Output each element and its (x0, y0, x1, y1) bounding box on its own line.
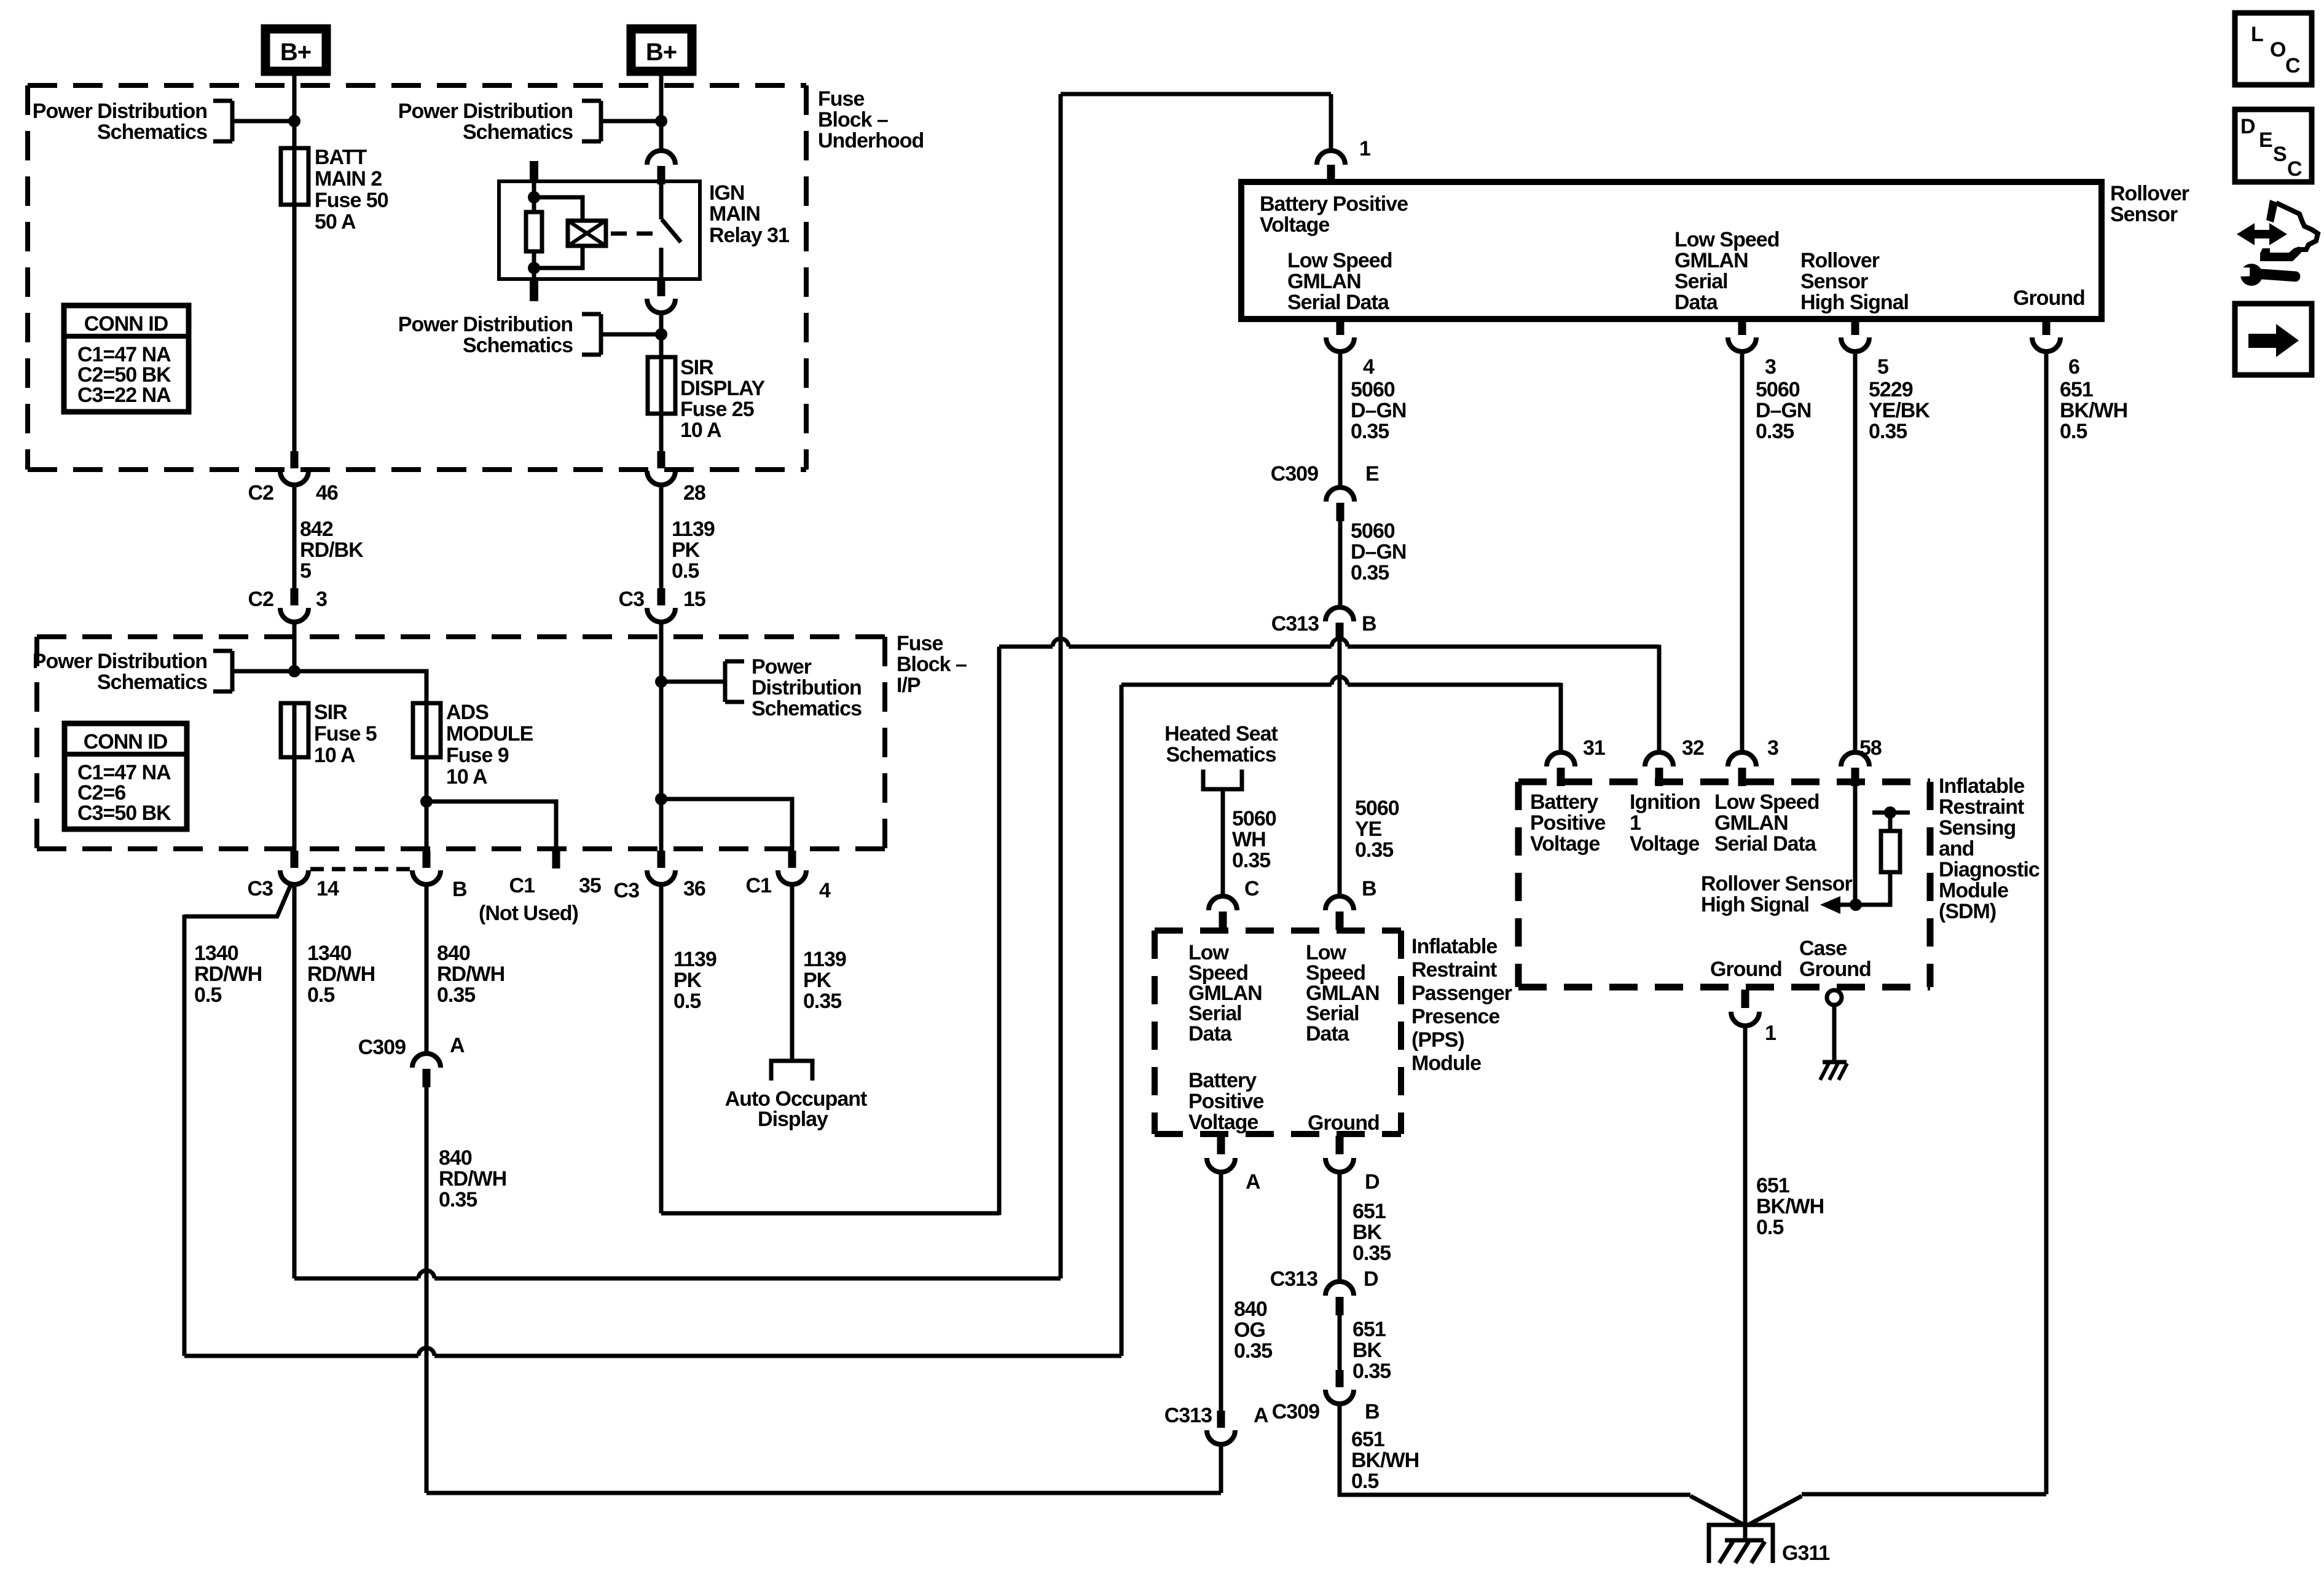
wire ign drop to pin 32 (1657, 645, 1662, 752)
wire batt feed bottom (184, 1354, 1121, 1358)
connector SDM pin 32 (1645, 752, 1673, 766)
inner dashed connector line (310, 867, 410, 872)
svg-text:0.5: 0.5 (1756, 1216, 1783, 1239)
svg-text:Sensing: Sensing (1939, 816, 2016, 840)
svg-text:Voltage: Voltage (1260, 213, 1329, 237)
wire ADS branch (294, 671, 426, 703)
icon arrow box (2235, 304, 2312, 375)
relay IGN MAIN Relay 31 box (499, 181, 700, 279)
svg-text:YE: YE (1355, 817, 1382, 841)
wire 5060 DGN mid (1338, 521, 1343, 607)
svg-text:C309: C309 (1272, 1400, 1319, 1423)
fuse block IP dashed box (37, 634, 885, 639)
power symbol B+ (battery feed, left) (265, 29, 326, 71)
wire pin1 drop (1329, 94, 1333, 150)
wire B+1 to junction (292, 71, 297, 148)
connector C3 pin 14 (291, 851, 299, 868)
svg-text:(SDM): (SDM) (1939, 900, 1996, 923)
connector pin 28 (658, 451, 665, 468)
svg-text:10 A: 10 A (680, 419, 721, 442)
svg-text:GMLAN: GMLAN (1674, 249, 1748, 272)
svg-text:10 A: 10 A (446, 765, 487, 789)
hop y1052 over x1726 (1053, 644, 1069, 650)
wire batt feed horizontal (1121, 683, 1561, 687)
off-page ref Power Distribution Schematics (IP left) (213, 649, 232, 653)
svg-text:35: 35 (579, 874, 601, 897)
node junction SIR fuse feed (288, 665, 300, 677)
svg-text:Schematics: Schematics (463, 334, 573, 357)
wire fuse to C2-46 (292, 148, 297, 451)
relay coil pin stub top (530, 161, 538, 181)
svg-text:Restraint: Restraint (1939, 795, 2024, 819)
svg-text:ADS: ADS (446, 701, 489, 724)
node junction right B+ (655, 115, 667, 127)
svg-text:BK/WH: BK/WH (1756, 1195, 1824, 1218)
resistor SDM internal bottom elbow (1856, 872, 1890, 905)
svg-text:0.35: 0.35 (1352, 1360, 1391, 1383)
svg-text:10 A: 10 A (314, 744, 355, 767)
svg-text:15: 15 (683, 588, 705, 611)
wire 1340 split diagonal (184, 885, 291, 916)
svg-text:Heated Seat: Heated Seat (1164, 722, 1278, 746)
relay switch fixed contact (659, 181, 664, 219)
svg-text:5229: 5229 (1869, 378, 1913, 401)
svg-text:5060: 5060 (1355, 797, 1399, 820)
connector SDM pin 1 ground (1741, 990, 1749, 1008)
svg-text:58: 58 (1859, 736, 1882, 760)
off-page ref Power Distribution Schematics (IP right) (661, 680, 725, 684)
svg-text:C3: C3 (248, 877, 273, 900)
wire 842 RD/BK (292, 486, 297, 588)
wire 840 bottom horizontal (426, 1491, 1221, 1495)
connector C309 pin E (1326, 487, 1354, 502)
resistor SDM internal (1881, 831, 1900, 872)
svg-text:C1: C1 (509, 874, 535, 897)
svg-text:C2: C2 (248, 588, 274, 611)
svg-text:Passenger: Passenger (1411, 982, 1512, 1005)
svg-text:0.35: 0.35 (439, 1188, 477, 1211)
connector rollover pin 6 (2043, 319, 2051, 335)
svg-text:31: 31 (1583, 736, 1605, 760)
svg-text:Schematics: Schematics (463, 120, 573, 144)
svg-text:Rollover: Rollover (1800, 249, 1880, 272)
wire rollover pin1 top horizontal (1061, 92, 1331, 96)
relay coil element box with X (568, 221, 606, 246)
wire 840 OG (1219, 1174, 1223, 1411)
svg-text:Presence: Presence (1411, 1005, 1499, 1028)
svg-text:Positive: Positive (1530, 811, 1605, 835)
wire right gnd elbow (1802, 1492, 2046, 1497)
hop y1052 over x2180 (1332, 644, 1348, 650)
connector C3 pin 15 (658, 588, 665, 605)
wire ign feed elbow (1139 PK) (661, 1211, 999, 1216)
wire SIR fuse to C3-14 (292, 703, 297, 851)
svg-text:3: 3 (316, 588, 327, 611)
svg-text:High Signal: High Signal (1701, 893, 1809, 916)
wire B+2 down to relay (659, 71, 664, 150)
svg-text:0.5: 0.5 (194, 983, 221, 1007)
svg-text:PK: PK (803, 969, 832, 992)
svg-text:32: 32 (1682, 736, 1704, 760)
svg-text:Voltage: Voltage (1188, 1111, 1258, 1134)
svg-text:36: 36 (683, 877, 705, 900)
wire C1-4 to display (790, 886, 795, 1061)
svg-text:0.35: 0.35 (1234, 1339, 1272, 1363)
off-page ref Auto Occupant Display (771, 1061, 812, 1081)
svg-text:Positive: Positive (1188, 1090, 1263, 1113)
svg-text:840: 840 (437, 942, 470, 965)
svg-text:D: D (1364, 1267, 1378, 1291)
svg-text:0.35: 0.35 (1232, 849, 1270, 872)
wire batt drop to pin 31 (1559, 683, 1563, 752)
relay switch lower contact (659, 248, 664, 279)
svg-text:S: S (2273, 143, 2287, 166)
icon vehicle outline (2266, 200, 2278, 222)
svg-text:Schematics: Schematics (1166, 743, 1276, 766)
icon vehicle double arrow (2237, 223, 2287, 245)
svg-text:0.35: 0.35 (1869, 420, 1907, 443)
svg-text:Underhood: Underhood (818, 129, 924, 152)
relay coil to switch dashed link (611, 232, 655, 236)
svg-text:OG: OG (1234, 1318, 1265, 1342)
svg-text:B: B (452, 878, 467, 901)
node junction left B+ (288, 115, 300, 127)
wire relay to junction (659, 313, 664, 357)
stub C1-35 not used (552, 851, 560, 868)
svg-text:Module: Module (1411, 1052, 1481, 1075)
off-page ref Power Distribution Schematics (top left) (213, 99, 232, 103)
svg-text:0.35: 0.35 (803, 990, 841, 1013)
svg-text:Serial: Serial (1674, 270, 1728, 293)
svg-text:651: 651 (1352, 1200, 1386, 1223)
svg-text:RD/WH: RD/WH (439, 1167, 506, 1191)
svg-text:3: 3 (1767, 736, 1778, 760)
svg-text:G311: G311 (1782, 1542, 1829, 1565)
svg-text:Data: Data (1306, 1022, 1350, 1045)
svg-text:B: B (1365, 1400, 1380, 1423)
svg-text:1139: 1139 (672, 518, 715, 541)
svg-text:PK: PK (672, 538, 701, 562)
node junction rollover high signal (1850, 899, 1862, 911)
relay coil pin stub bottom (530, 279, 538, 301)
connector B pin (423, 851, 431, 868)
svg-text:Power Distribution: Power Distribution (33, 100, 207, 123)
svg-text:L: L (2251, 23, 2263, 46)
wire 840 RD/WH upper (425, 886, 429, 1053)
svg-text:GMLAN: GMLAN (1287, 270, 1361, 293)
svg-text:50 A: 50 A (315, 210, 356, 234)
wire ADS fuse down (425, 703, 429, 851)
svg-text:Restraint: Restraint (1411, 958, 1497, 982)
ground G311 symbol (1709, 1525, 1773, 1563)
svg-text:Inflatable: Inflatable (1939, 774, 2024, 798)
connector rollover pin 5 (1851, 319, 1859, 335)
svg-text:Ground: Ground (1308, 1111, 1380, 1135)
svg-text:1340: 1340 (194, 942, 238, 965)
connector PPS pin B (1325, 896, 1354, 910)
wire 1139 PK lower (659, 886, 664, 1213)
svg-text:Schematics: Schematics (97, 671, 207, 694)
connector C1 pin 4 (788, 851, 796, 868)
PPS module dashed box (1155, 927, 1401, 934)
svg-text:840: 840 (1234, 1297, 1267, 1321)
svg-text:BK/WH: BK/WH (1351, 1449, 1419, 1472)
svg-text:Schematics: Schematics (752, 697, 862, 720)
svg-text:Fuse 5: Fuse 5 (314, 722, 377, 746)
svg-text:14: 14 (316, 877, 339, 900)
svg-text:C313: C313 (1270, 1267, 1317, 1291)
connector PPS pin C (1209, 896, 1237, 910)
svg-text:Serial Data: Serial Data (1714, 832, 1817, 856)
svg-text:28: 28 (683, 481, 705, 505)
connector rollover pin 1 (1317, 151, 1345, 165)
resistor SDM internal stem (1888, 813, 1893, 831)
svg-text:A: A (450, 1034, 465, 1057)
svg-text:Power Distribution: Power Distribution (398, 100, 573, 123)
wire 5060 YE (1338, 641, 1342, 896)
connector PPS pin D (1336, 1136, 1344, 1154)
svg-text:CONN ID: CONN ID (84, 730, 168, 754)
svg-text:MODULE: MODULE (446, 722, 533, 746)
connector C313 pin B (1325, 607, 1354, 621)
svg-text:5: 5 (300, 559, 311, 583)
relay coil vertical (532, 181, 536, 279)
svg-text:Diagnostic: Diagnostic (1939, 858, 2039, 881)
svg-text:Distribution: Distribution (752, 676, 862, 699)
svg-text:C2: C2 (248, 481, 274, 505)
svg-text:SIR: SIR (314, 701, 347, 724)
svg-text:5: 5 (1877, 355, 1888, 379)
icon DESC box (2235, 109, 2312, 182)
svg-text:A: A (1246, 1170, 1260, 1194)
svg-text:GMLAN: GMLAN (1714, 811, 1788, 835)
svg-text:0.35: 0.35 (437, 983, 475, 1007)
wire branch to C1-35 (426, 801, 556, 851)
svg-text:B+: B+ (280, 39, 311, 66)
fuse ADS MODULE Fuse 9 10A (413, 703, 441, 757)
svg-text:Fuse: Fuse (818, 87, 864, 111)
connector SDM pin 58 (1841, 752, 1869, 766)
svg-text:BK: BK (1352, 1221, 1383, 1244)
connector rollover pin 4 (1337, 319, 1345, 335)
svg-text:Power Distribution: Power Distribution (33, 650, 207, 673)
svg-text:DISPLAY: DISPLAY (680, 377, 766, 400)
svg-text:RD/BK: RD/BK (300, 538, 364, 562)
node resistor top (1884, 806, 1896, 819)
svg-text:Sensor: Sensor (2110, 203, 2178, 226)
wire C313A riser (1219, 1446, 1223, 1493)
svg-text:MAIN: MAIN (709, 202, 760, 226)
svg-text:Ground: Ground (1710, 958, 1782, 981)
connector SDM pin 3 (1728, 752, 1756, 766)
svg-text:1: 1 (1359, 137, 1370, 160)
svg-text:Case: Case (1799, 937, 1847, 960)
node junction ADS to C1-35 (420, 795, 433, 808)
svg-text:Low Speed: Low Speed (1714, 790, 1819, 814)
ground slant left (1690, 1496, 1744, 1525)
svg-text:D–GN: D–GN (1756, 399, 1811, 422)
wire 5229 YEBK (1853, 354, 1858, 752)
connector SDM pin 31 (1547, 752, 1575, 766)
arrow rollover high signal (1839, 903, 1853, 907)
svg-text:E: E (1365, 462, 1379, 486)
wire 651 BK upper (1338, 1174, 1342, 1281)
node coil top (528, 191, 540, 203)
wire ign feed riser (997, 647, 1002, 1215)
svg-text:0.5: 0.5 (2060, 420, 2087, 443)
node junction IGN feed (655, 675, 667, 688)
svg-text:0.5: 0.5 (1351, 1470, 1378, 1493)
wire 5060 DGN pin3 (1740, 354, 1745, 752)
svg-text:BATT: BATT (315, 146, 367, 169)
connector C313 pin A (1217, 1411, 1225, 1428)
svg-text:5060: 5060 (1756, 378, 1800, 401)
svg-text:CONN ID: CONN ID (84, 312, 168, 336)
relay coil branch wires (534, 197, 583, 221)
svg-text:D: D (1365, 1170, 1380, 1194)
connector C2 pin 3 (291, 588, 299, 605)
wire SDM ground to G311 (1743, 1028, 1748, 1540)
svg-text:E: E (2259, 128, 2272, 152)
svg-text:4: 4 (1363, 355, 1375, 379)
svg-text:842: 842 (300, 518, 333, 541)
svg-text:RD/WH: RD/WH (307, 963, 375, 986)
svg-text:651: 651 (1756, 1174, 1789, 1197)
svg-text:High Signal: High Signal (1800, 291, 1909, 314)
wire ign feed horizontal (999, 645, 1659, 649)
svg-text:Block –: Block – (897, 653, 967, 676)
resistor SDM internal top bar (1872, 811, 1910, 815)
svg-text:Inflatable: Inflatable (1411, 935, 1497, 958)
svg-text:651: 651 (1351, 1428, 1384, 1451)
wire 651 BKWH to ground (1340, 1405, 1690, 1495)
svg-text:C3=22 NA: C3=22 NA (77, 384, 171, 407)
wire C3-15 into IP block (659, 623, 664, 851)
svg-text:Low Speed: Low Speed (1674, 228, 1779, 251)
hop y2206 over x694 (418, 1353, 434, 1359)
svg-text:1139: 1139 (803, 948, 846, 971)
svg-text:D: D (2240, 115, 2255, 138)
svg-text:Serial Data: Serial Data (1287, 291, 1390, 314)
svg-text:C: C (2287, 157, 2302, 181)
connector C309 pin B (1336, 1370, 1344, 1387)
fuse block underhood dashed box (28, 83, 806, 88)
svg-text:Voltage: Voltage (1630, 832, 1699, 856)
svg-text:0.5: 0.5 (673, 990, 701, 1013)
resistor relay coil suppression (526, 212, 542, 251)
svg-text:C309: C309 (358, 1036, 406, 1059)
node junction to C1-4 (655, 793, 667, 805)
ground slant right (1748, 1496, 1802, 1525)
svg-text:Voltage: Voltage (1530, 832, 1600, 856)
svg-text:BK: BK (1352, 1339, 1383, 1362)
svg-text:Battery: Battery (1530, 790, 1598, 814)
svg-text:D–GN: D–GN (1351, 399, 1406, 422)
icon LOC box (2235, 13, 2312, 85)
hop y2080 over x694 (418, 1275, 434, 1282)
SDM dashed box (1518, 779, 1930, 786)
svg-text:0.35: 0.35 (1355, 838, 1393, 862)
svg-text:5060: 5060 (1232, 807, 1276, 830)
svg-text:RD/WH: RD/WH (437, 963, 504, 986)
svg-text:RD/WH: RD/WH (194, 963, 262, 986)
wire branch to C1-4 (661, 799, 792, 851)
svg-text:Schematics: Schematics (97, 120, 207, 144)
svg-text:SIR: SIR (680, 356, 713, 379)
svg-text:Power Distribution: Power Distribution (398, 313, 573, 336)
wire batt feed riser (1120, 685, 1124, 1356)
svg-text:5060: 5060 (1351, 519, 1395, 543)
svg-text:C3: C3 (619, 588, 645, 611)
svg-text:Data: Data (1674, 291, 1719, 314)
svg-text:I/P: I/P (897, 674, 921, 697)
fuse BATT MAIN 2 Fuse 50 50A (281, 148, 308, 205)
svg-text:C1: C1 (746, 874, 772, 897)
hop y1114 over x2180 (1332, 682, 1348, 688)
svg-text:A: A (1254, 1404, 1268, 1427)
conn id table underhood (64, 305, 189, 412)
chassis ground symbol (1823, 1060, 1847, 1065)
svg-text:3: 3 (1765, 355, 1776, 379)
svg-text:1139: 1139 (673, 948, 716, 971)
node coil bottom (528, 262, 540, 274)
svg-text:Rollover: Rollover (2110, 182, 2189, 205)
relay top connector (647, 151, 675, 165)
svg-text:C3: C3 (614, 879, 640, 902)
wire C2-3 into IP block (292, 623, 297, 671)
svg-text:Ground: Ground (2013, 286, 2085, 310)
wire 651 BK lower (1338, 1315, 1342, 1370)
svg-text:Fuse 25: Fuse 25 (680, 398, 754, 421)
svg-text:C313: C313 (1271, 612, 1319, 636)
svg-text:Fuse 9: Fuse 9 (446, 744, 509, 767)
svg-text:Rollover Sensor: Rollover Sensor (1701, 872, 1853, 896)
svg-text:Module: Module (1939, 879, 2008, 902)
icon wrench (2240, 264, 2263, 286)
connector rollover pin 3 (1738, 319, 1746, 335)
wire pin58 internal (1853, 786, 1858, 905)
svg-text:0.5: 0.5 (307, 983, 334, 1007)
svg-text:Data: Data (1188, 1022, 1233, 1045)
connector C3 pin 36 (658, 851, 665, 868)
svg-text:MAIN 2: MAIN 2 (315, 167, 382, 191)
svg-text:Ground: Ground (1799, 958, 1871, 981)
wire 1340 main vertical (292, 886, 297, 1278)
svg-text:Relay 31: Relay 31 (709, 224, 789, 247)
svg-text:C: C (1244, 877, 1259, 900)
connector C2 pin 46 (291, 451, 299, 468)
svg-text:O: O (2270, 38, 2286, 61)
svg-text:Block –: Block – (818, 108, 888, 132)
svg-text:BK/WH: BK/WH (2060, 399, 2127, 422)
svg-text:C313: C313 (1164, 1404, 1212, 1427)
svg-text:PK: PK (673, 969, 702, 992)
rollover sensor box (1241, 182, 2102, 319)
off-page ref Power Distribution Schematics (below relay) (582, 312, 601, 317)
svg-text:1: 1 (1765, 1022, 1776, 1045)
wire 1139 PK upper (659, 486, 664, 588)
svg-text:Display: Display (758, 1108, 828, 1131)
wire 1340 left vertical (183, 915, 187, 1356)
svg-text:0.5: 0.5 (672, 559, 699, 583)
connector C313 pin D (1325, 1282, 1354, 1296)
svg-text:(Not Used): (Not Used) (479, 902, 578, 925)
relay bottom connector (658, 279, 665, 296)
svg-text:Sensor: Sensor (1800, 270, 1868, 293)
svg-text:WH: WH (1232, 828, 1266, 851)
svg-text:5060: 5060 (1351, 378, 1395, 401)
svg-text:46: 46 (316, 481, 338, 505)
